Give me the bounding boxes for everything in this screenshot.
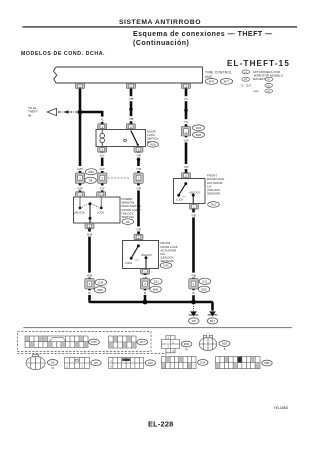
wire ground bus	[90, 301, 213, 311]
svg-text:D6: D6	[94, 361, 98, 365]
wire drop3 from U1 pin4 down	[185, 89, 188, 173]
dashed harness group box	[18, 332, 152, 352]
wire label Y/B col3 above connector	[188, 273, 198, 278]
relay terminal pin 3 bottom-left	[98, 147, 107, 152]
inline connector pin 1 on drop1	[75, 173, 84, 183]
svg-text:*1 : G/Y: *1 : G/Y	[241, 84, 252, 88]
svg-text:B: B	[224, 348, 226, 351]
connector D14 oval	[95, 279, 107, 285]
node junction col3 on bus	[191, 300, 196, 305]
wire label G/Y above PW switch	[97, 185, 107, 190]
connector B25 oval	[198, 286, 210, 292]
connector face M76 pin grid	[25, 336, 88, 348]
node junction col2 on bus	[143, 300, 148, 305]
svg-text:D8: D8	[192, 319, 196, 323]
PW switch blade vertical	[89, 204, 91, 218]
svg-text:M76: M76	[209, 80, 215, 84]
relay switch blade	[131, 131, 138, 145]
svg-text:M65: M65	[264, 361, 270, 365]
svg-text:Y/L: Y/L	[184, 120, 189, 124]
front door lock actuator LH box	[174, 179, 206, 204]
wire label Y/R above RH actuator	[133, 226, 143, 231]
svg-text:G/Y: G/Y	[100, 167, 105, 171]
relay terminal pin 4 bottom-right	[134, 147, 143, 152]
svg-text:D11: D11	[202, 280, 207, 284]
svg-text:06: 06	[28, 113, 32, 117]
svg-text:D5: D5	[51, 361, 55, 365]
svg-text:Y/R: Y/R	[136, 227, 142, 231]
connector D26 oval	[160, 263, 172, 269]
svg-text:*1: *1	[101, 118, 104, 122]
inline connector pin 6 on col1	[85, 279, 94, 289]
wire label G/B col1 above connector	[84, 273, 94, 278]
svg-text:G/L: G/L	[254, 89, 259, 93]
svg-text:D14: D14	[98, 281, 104, 285]
connector M65 oval ref	[262, 360, 272, 366]
svg-text:Y/B: Y/B	[129, 117, 134, 121]
terminal pin 4 on U1	[182, 83, 191, 88]
RH actuator switch blade	[131, 246, 138, 258]
header rule	[23, 26, 298, 27]
relay K1 door lock switch relay box	[96, 130, 146, 147]
svg-text:SENSOR): SENSOR)	[207, 192, 220, 196]
connector M77 oval ref	[137, 339, 148, 345]
svg-text:UNLOCK: UNLOCK	[74, 211, 85, 215]
LH actuator switch contact top	[184, 182, 187, 185]
connector face D6 pin grid	[65, 358, 90, 369]
svg-text:D21: D21	[154, 280, 160, 284]
connector face B20 round grid	[199, 335, 217, 350]
wire col1 PW switch down to ground bus corner	[88, 229, 91, 301]
wire label Y/B upper	[126, 96, 136, 101]
connector D5 oval ref	[47, 360, 57, 366]
wire col3 LH actuator down to ground bus	[192, 209, 195, 302]
connector D5 oval	[85, 177, 97, 183]
LH actuator LOCK contact	[177, 194, 180, 197]
PW switch common wire to bottom	[89, 218, 91, 223]
RH actuator terminal pin 2 top	[134, 234, 143, 239]
wire label G/R drop1 below connector	[75, 185, 85, 190]
legend model symbol HT	[242, 70, 250, 74]
svg-text:LOCK: LOCK	[97, 211, 104, 215]
svg-text:G/B: G/B	[87, 233, 92, 237]
PW switch terminal pin 3 top-left	[76, 192, 85, 197]
connector face D5 round grid	[26, 355, 45, 370]
PW switch contact wire right	[100, 197, 102, 207]
svg-text:G/Y: G/Y	[100, 154, 105, 158]
PW switch contact wire left	[79, 197, 81, 207]
wire label Y/B col2 above connector	[140, 275, 150, 280]
svg-text:B: B	[144, 291, 146, 295]
svg-text:M65: M65	[97, 288, 103, 292]
power window main switch S1 box	[74, 197, 121, 223]
wire label Y/B lower	[126, 116, 136, 121]
svg-text:SISTEMA ANTIRROBO: SISTEMA ANTIRROBO	[119, 19, 201, 26]
svg-text:B: B	[192, 291, 194, 295]
arrow flow on colB	[136, 159, 140, 165]
connector B20 oval ref	[219, 341, 230, 347]
inline connector pin 2 on colB	[134, 173, 143, 183]
relay terminal pin 2 top-right	[126, 124, 135, 129]
connector M33 oval	[193, 125, 205, 131]
section separator rule	[23, 326, 292, 329]
svg-text:B20: B20	[222, 342, 227, 346]
connector D6 oval	[122, 219, 134, 225]
svg-text:G/R: G/R	[77, 186, 83, 190]
svg-text:D10: D10	[148, 361, 154, 365]
connector D21 oval	[151, 278, 163, 284]
svg-text:G/Y: G/Y	[100, 186, 105, 190]
svg-text:M76: M76	[91, 340, 97, 344]
connector M66 oval	[150, 286, 162, 292]
terminal pin 6 on U1	[127, 83, 136, 88]
svg-text:M18: M18	[150, 143, 156, 147]
wire label G/B col1 top	[84, 232, 94, 237]
svg-text:YEL168D: YEL168D	[274, 406, 289, 410]
svg-text:G/R: G/R	[77, 167, 83, 171]
svg-text:: EXCEPT: : EXCEPT	[252, 77, 266, 81]
wire colA relay coil to PW switch	[101, 152, 104, 192]
wire drop1 from U1 pin5 down	[79, 89, 82, 193]
front door lock actuator RH box	[123, 241, 159, 269]
PW switch terminal pin 14 top-right	[97, 192, 106, 197]
svg-text:M33: M33	[184, 342, 190, 346]
svg-text:B: B	[88, 291, 90, 295]
PW switch pivot dot	[89, 217, 92, 220]
svg-text:Y/L: Y/L	[184, 97, 189, 101]
splice connector pin 1 on drop3	[181, 127, 190, 136]
LH actuator terminal pin 1 bottom	[190, 204, 199, 209]
svg-text:Y/R: Y/R	[183, 165, 189, 169]
wire label Y/R above LH actuator	[181, 164, 191, 169]
ground symbol right	[208, 311, 218, 316]
svg-text:M77: M77	[224, 80, 230, 84]
wire label *1	[98, 117, 106, 122]
svg-text:AT: AT	[244, 78, 247, 81]
svg-text:D26: D26	[163, 264, 169, 268]
wire label B col1 below connector	[85, 290, 93, 295]
wire label Y/L lower	[181, 119, 191, 124]
wire dotted ground stub col3	[193, 304, 195, 312]
svg-text:M77: M77	[139, 340, 145, 344]
connector M33 oval ref	[181, 341, 192, 347]
connector M76 oval	[205, 79, 217, 85]
wire label Y/R colB below connector	[133, 185, 143, 190]
connector face M77 pin grid	[109, 336, 137, 348]
connector D14 oval ref	[198, 360, 208, 366]
svg-text:EL-THEFT-15: EL-THEFT-15	[227, 59, 290, 68]
wire dash-dot to EL-THEFT-06	[58, 111, 78, 113]
arrow flow on drop2	[129, 109, 133, 115]
svg-text:D10: D10	[211, 203, 217, 207]
wire colB relay switch down to RH actuator	[137, 152, 140, 234]
RH actuator terminal pin 1 bottom	[141, 269, 150, 274]
off-page arrow TO EL-THEFT-06	[47, 108, 56, 115]
wire label G/Y colA top	[97, 153, 107, 158]
wire label Y/R colB mid	[133, 166, 143, 171]
svg-text:MODELOS DE COND. DCHA.: MODELOS DE COND. DCHA.	[21, 51, 105, 57]
connector M18 oval	[147, 142, 158, 147]
svg-text:UNLOCK: UNLOCK	[141, 253, 152, 257]
RH actuator UNLOCK contact and wire	[145, 256, 148, 259]
PW switch common pole dot	[89, 202, 92, 205]
LH actuator switch blade	[179, 184, 186, 196]
inline connector pin 3 on colA	[98, 173, 107, 183]
wire label Y/B col3	[188, 212, 198, 217]
svg-text:G/B: G/B	[87, 274, 92, 278]
svg-text:M64: M64	[88, 170, 94, 174]
svg-text:LOCK: LOCK	[125, 261, 132, 265]
wire branch to relay coil	[80, 112, 102, 124]
wire label Y/R below splice	[181, 137, 191, 142]
connector M77 oval	[220, 79, 232, 85]
LH actuator terminal pin 2 top	[182, 173, 191, 178]
inline connector pin 4 on col2	[140, 279, 149, 289]
wire label G/R drop1 above connector	[75, 166, 85, 171]
svg-text:Y/B: Y/B	[191, 213, 196, 217]
connector M76 oval ref	[89, 339, 100, 345]
connector M65 oval	[94, 287, 106, 293]
svg-text:Esquema de conexiones — THEFT: Esquema de conexiones — THEFT —	[133, 31, 273, 38]
ground connector D8 oval	[189, 318, 199, 324]
wire drop2 from U1 pin6 to relay	[130, 89, 133, 124]
RH actuator switch contact top	[137, 244, 140, 247]
LH actuator UNLOCK contact and wire	[192, 194, 195, 197]
svg-text:UNLOCK: UNLOCK	[189, 190, 200, 194]
svg-text:B20: B20	[196, 133, 201, 137]
connector face D10 pin grid	[109, 358, 144, 369]
svg-text:Y/R: Y/R	[136, 167, 142, 171]
svg-text:Y/R: Y/R	[136, 154, 142, 158]
connector D10 oval	[208, 202, 220, 208]
svg-text:D5: D5	[89, 179, 93, 183]
connector D10 oval ref	[145, 360, 155, 366]
time control unit U1 box	[53, 67, 202, 83]
PW switch terminal pin 2 bottom	[85, 223, 94, 228]
wire label Y/L upper	[181, 96, 191, 101]
svg-text:B25: B25	[202, 288, 207, 292]
svg-text:EL-228: EL-228	[148, 419, 173, 428]
arrow flow on drop3	[184, 110, 188, 116]
svg-text:Y/R: Y/R	[136, 186, 142, 190]
legend model symbol AT	[242, 77, 250, 81]
svg-text:B17: B17	[210, 319, 215, 323]
connector B20 oval	[193, 132, 205, 138]
connector D11 oval	[199, 278, 211, 284]
svg-text:Y/B: Y/B	[129, 97, 134, 101]
wire dashed bridge between inline connectors	[108, 177, 129, 179]
inline connector pin 1 on col3	[189, 279, 198, 289]
connector face D14 pin grid	[162, 357, 197, 369]
svg-text:SWITCH): SWITCH)	[122, 215, 134, 219]
relay coil	[100, 130, 105, 147]
PW switch throw arc dashed	[82, 204, 98, 207]
wire label G/Y colA mid	[97, 166, 107, 171]
svg-text:Y/B: Y/B	[191, 274, 196, 278]
wire label Y/R colB top	[133, 153, 143, 158]
relay terminal pin 1 top-left	[98, 124, 107, 129]
RH actuator LOCK contact	[130, 257, 133, 260]
node junction drop1/branch	[78, 110, 83, 115]
svg-text:W: W	[51, 367, 54, 370]
PW switch contact LOCK	[100, 207, 103, 210]
dashed harness line row2	[18, 354, 167, 356]
svg-text:GY: GY	[185, 349, 189, 352]
terminal pin 5 on U1	[76, 83, 85, 88]
ground connector B17 oval	[207, 318, 217, 324]
svg-text:LOCK: LOCK	[176, 198, 183, 202]
relay switch contact	[124, 139, 127, 142]
svg-text:M66: M66	[153, 288, 159, 292]
ground symbol left	[189, 311, 199, 316]
svg-text:D14: D14	[200, 361, 206, 365]
connector face M65 pin grid	[216, 357, 261, 369]
connector D6 oval ref	[91, 360, 101, 366]
svg-text:M33: M33	[196, 126, 202, 130]
PW switch contact UNLOCK	[79, 207, 82, 210]
wire label B col2 below connector	[141, 290, 149, 295]
svg-text:Y/R: Y/R	[183, 138, 189, 142]
wire label B col3 below connector	[188, 290, 198, 295]
svg-text:D6: D6	[126, 220, 130, 224]
svg-text:(Continuación): (Continuación)	[133, 40, 189, 47]
svg-text:AT: AT	[267, 90, 270, 93]
connector face M18 cross grid	[162, 336, 180, 353]
RH actuator throw mark	[135, 259, 138, 261]
LH actuator throw mark	[183, 196, 186, 198]
connector M64 oval	[85, 169, 97, 175]
wire col2 RH actuator down to ground bus	[144, 274, 147, 302]
arrow flow on dash-dot wire	[64, 110, 69, 113]
